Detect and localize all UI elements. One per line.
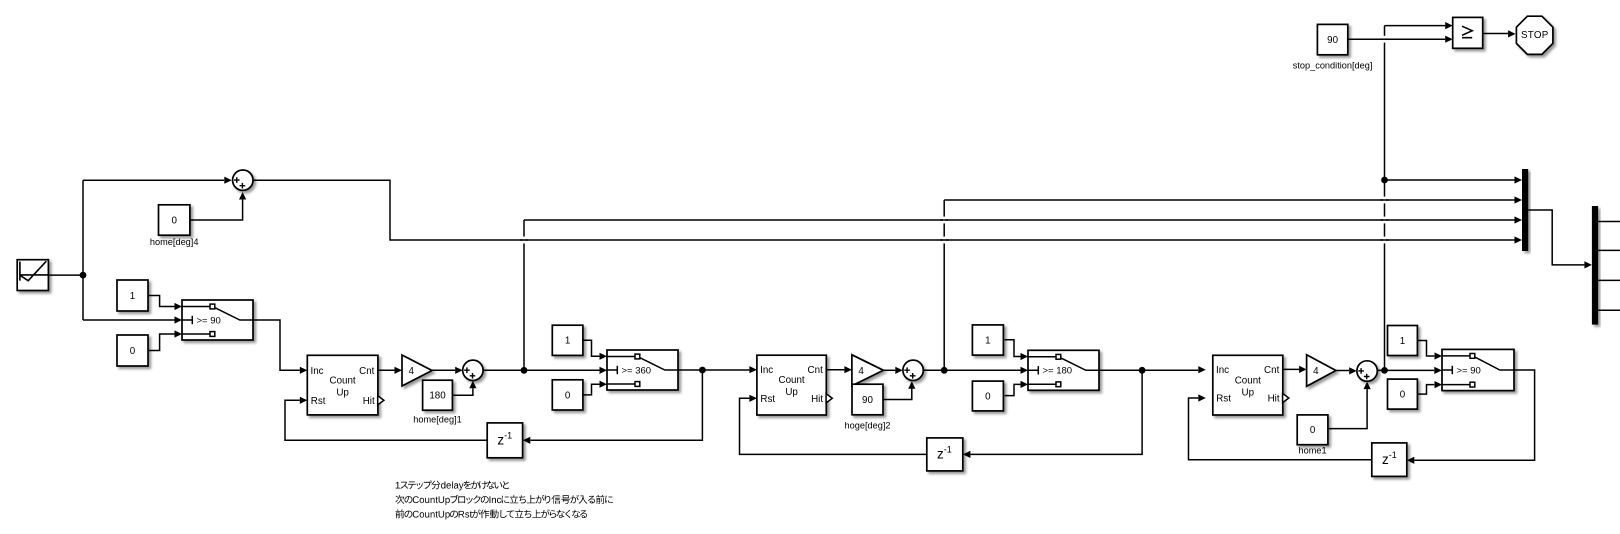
annotation japanese note bbox=[395, 481, 612, 520]
unit delay unit delay3 bbox=[1372, 443, 1407, 477]
svg-text:Inc: Inc bbox=[760, 365, 773, 376]
svg-text:Rst: Rst bbox=[760, 394, 775, 405]
wire unit delay2 to CountUp2 Rst bbox=[740, 395, 927, 455]
svg-text:4: 4 bbox=[408, 366, 414, 377]
svg-text:Up: Up bbox=[785, 387, 798, 398]
wire constant zero2 to switch2 bbox=[583, 381, 607, 395]
wire sum Add2 out to switch3 and up to mux input 2 bbox=[923, 196, 1522, 374]
constant one3 bbox=[972, 325, 1003, 355]
svg-text:home1: home1 bbox=[1299, 446, 1327, 456]
wire constant one4 to switch4 bbox=[1417, 341, 1442, 360]
constant zero2 bbox=[552, 380, 583, 410]
junction node stage2 output bbox=[941, 367, 948, 374]
mux bbox=[1522, 169, 1528, 251]
svg-text:0: 0 bbox=[130, 346, 136, 357]
svg-text:Rst: Rst bbox=[311, 396, 326, 407]
svg-text:1: 1 bbox=[565, 336, 570, 347]
constant zero3 bbox=[972, 381, 1003, 411]
svg-text:Rst: Rst bbox=[1216, 394, 1231, 405]
wire gain1 to sum Add1 bbox=[432, 367, 463, 374]
wire mux to demux bbox=[1528, 210, 1592, 269]
wire constant home[deg]1 to sum Add1 bbox=[452, 381, 476, 396]
svg-text:0: 0 bbox=[565, 390, 571, 401]
svg-text:0: 0 bbox=[985, 391, 991, 402]
constant one2 bbox=[552, 325, 583, 355]
constant stop_condition[deg] bbox=[1293, 24, 1373, 70]
junction node stage1 output bbox=[521, 367, 528, 374]
wire stop_condition[deg] to relational op bbox=[1348, 36, 1453, 43]
wire constant zero1 to switch1 bbox=[148, 330, 182, 350]
svg-text:Hit: Hit bbox=[1268, 394, 1280, 405]
svg-text:Count: Count bbox=[779, 375, 805, 386]
wire constant hoge[deg]2 to sum Add2 bbox=[883, 381, 915, 399]
svg-text:Up: Up bbox=[1242, 387, 1255, 398]
wire source to junction A bbox=[48, 274, 83, 276]
svg-text:1: 1 bbox=[130, 291, 135, 302]
svg-text:1: 1 bbox=[1400, 336, 1405, 347]
junction node switch2 output bbox=[699, 367, 706, 374]
constant home1 bbox=[1297, 415, 1328, 456]
wire constant zero4 to switch4 bbox=[1417, 381, 1442, 394]
svg-text:Hit: Hit bbox=[811, 394, 823, 405]
junction node stage3 output bbox=[1381, 367, 1388, 374]
wire gain3 to sum Add3 bbox=[1336, 367, 1357, 374]
switch switch2 >= 360 bbox=[607, 350, 678, 390]
svg-text:Inc: Inc bbox=[1216, 365, 1229, 376]
wire junction A up to sum Add4 and down to switch1 bbox=[83, 177, 232, 324]
sum Add4 bbox=[233, 170, 253, 190]
switch switch3 >= 180 bbox=[1028, 350, 1099, 390]
svg-text:4: 4 bbox=[1313, 366, 1319, 377]
wire sum Add1 out to switch2 and up to mux input 3 bbox=[483, 216, 1522, 374]
wire sum Add4 output to mux input 4 bbox=[253, 180, 1522, 243]
wire gain2 to sum Add2 bbox=[883, 367, 902, 374]
constant zero1 bbox=[117, 335, 148, 366]
gain gain1 (4) bbox=[402, 355, 432, 386]
svg-text:>= 360: >= 360 bbox=[622, 365, 652, 376]
wire unit delay3 to CountUp3 Rst bbox=[1189, 394, 1372, 459]
svg-text:0: 0 bbox=[1400, 390, 1406, 401]
wire demux outputs bbox=[1598, 222, 1620, 311]
junction node A (source branch) bbox=[80, 272, 87, 279]
wire constant zero3 to switch3 bbox=[1005, 381, 1029, 396]
wire switch2 out to CountUp2 Inc and down to unit delay1 bbox=[523, 366, 757, 444]
subsystem CountUp1 bbox=[307, 355, 384, 415]
svg-text:90: 90 bbox=[1327, 35, 1338, 46]
svg-text:hoge[deg]2: hoge[deg]2 bbox=[845, 420, 891, 430]
svg-text:0: 0 bbox=[1310, 425, 1316, 436]
constant one4 bbox=[1388, 326, 1418, 356]
relational operator >= bbox=[1453, 17, 1483, 48]
unit delay unit delay2 bbox=[927, 438, 963, 471]
wire home[deg]4 to sum Add4 bbox=[190, 192, 246, 220]
unit delay unit delay1 bbox=[487, 423, 522, 458]
constant zero4 bbox=[1388, 379, 1418, 409]
wire constant one2 to switch2 bbox=[583, 340, 607, 360]
gain gain3 (4) bbox=[1307, 355, 1336, 387]
svg-text:Cnt: Cnt bbox=[1264, 365, 1280, 376]
svg-text:Inc: Inc bbox=[311, 366, 324, 377]
gain gain2 (4) bbox=[852, 355, 884, 386]
svg-text:stop_condition[deg]: stop_condition[deg] bbox=[1293, 60, 1373, 70]
svg-text:4: 4 bbox=[858, 366, 864, 377]
sum Add2 bbox=[903, 360, 923, 380]
wire sum Add3 out to switch4, up to mux input 1 and relational op bbox=[1377, 22, 1522, 374]
STOP block bbox=[1516, 16, 1553, 54]
svg-text:STOP: STOP bbox=[1521, 30, 1549, 41]
svg-text:1: 1 bbox=[985, 335, 990, 346]
sum Add3 bbox=[1357, 361, 1377, 381]
svg-text:90: 90 bbox=[862, 395, 873, 406]
wire CountUp3 Cnt to gain3 bbox=[1283, 366, 1307, 373]
wire constant one1 to switch1 bbox=[148, 296, 182, 311]
wire CountUp2 Cnt to gain2 bbox=[826, 366, 852, 373]
wire CountUp1 Cnt to gain1 bbox=[378, 367, 402, 374]
svg-text:Count: Count bbox=[1235, 375, 1261, 386]
svg-text:180: 180 bbox=[429, 391, 446, 402]
svg-text:Cnt: Cnt bbox=[808, 365, 824, 376]
subsystem CountUp2 bbox=[757, 355, 832, 415]
junction node stage3 to mux bbox=[1381, 177, 1388, 184]
subsystem CountUp3 bbox=[1213, 355, 1289, 415]
demux bbox=[1592, 206, 1598, 325]
svg-text:>= 90: >= 90 bbox=[1457, 365, 1481, 376]
constant one1 bbox=[117, 280, 148, 311]
constant hoge[deg]2 bbox=[845, 384, 891, 430]
svg-text:>= 90: >= 90 bbox=[197, 315, 221, 326]
wire switch1 to CountUp1 Inc bbox=[253, 320, 307, 374]
svg-text:0: 0 bbox=[171, 215, 177, 226]
switch switch1 >= 90 bbox=[182, 300, 253, 340]
svg-text:Count: Count bbox=[330, 375, 356, 386]
svg-text:Cnt: Cnt bbox=[359, 366, 375, 377]
switch switch4 >= 90 bbox=[1442, 349, 1514, 390]
wire relational op to STOP bbox=[1483, 30, 1516, 37]
wire constant home1 to sum Add3 bbox=[1328, 382, 1371, 429]
constant home[deg]4 bbox=[150, 205, 199, 247]
wire crossing gaps bbox=[520, 36, 1389, 244]
wire switch4 out down to unit delay3 bbox=[1407, 370, 1535, 464]
svg-text:>= 180: >= 180 bbox=[1043, 366, 1073, 377]
svg-text:Up: Up bbox=[336, 387, 349, 398]
sum Add1 bbox=[463, 360, 483, 380]
signal source block bbox=[17, 260, 48, 291]
svg-text:home[deg]1: home[deg]1 bbox=[413, 415, 462, 425]
wire unit delay1 to CountUp1 Rst bbox=[285, 397, 487, 441]
wire switch3 out to CountUp3 Inc and down to unit delay2 bbox=[963, 366, 1206, 458]
wire constant one3 to switch3 bbox=[1005, 340, 1029, 360]
constant home[deg]1 bbox=[413, 380, 462, 424]
svg-text:home[deg]4: home[deg]4 bbox=[150, 237, 199, 247]
svg-text:Hit: Hit bbox=[363, 396, 375, 407]
junction node switch3 output bbox=[1139, 367, 1146, 374]
